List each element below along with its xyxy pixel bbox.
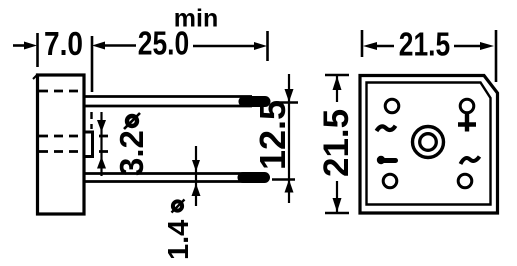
svg-text:21.5: 21.5	[317, 109, 356, 177]
svg-text:7.0: 7.0	[44, 26, 83, 63]
svg-text:3.2: 3.2	[113, 130, 150, 176]
svg-text:21.5: 21.5	[399, 27, 450, 63]
svg-text:min: min	[174, 5, 218, 33]
svg-text:12.5: 12.5	[252, 100, 293, 170]
svg-text:1.4: 1.4	[163, 220, 195, 260]
